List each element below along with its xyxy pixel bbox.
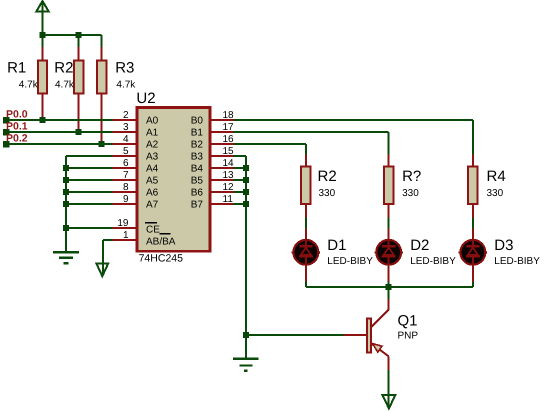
svg-text:CE: CE xyxy=(146,224,160,235)
svg-text:R3: R3 xyxy=(115,60,134,77)
svg-text:P0.0: P0.0 xyxy=(6,109,28,121)
svg-text:5: 5 xyxy=(123,146,129,157)
svg-text:P0.2: P0.2 xyxy=(6,133,28,145)
svg-text:13: 13 xyxy=(223,170,235,181)
svg-text:LED-BIBY: LED-BIBY xyxy=(494,256,540,267)
svg-text:R?: R? xyxy=(402,168,421,185)
svg-text:1: 1 xyxy=(123,230,129,241)
svg-text:330: 330 xyxy=(319,188,336,199)
svg-text:LED-BIBY: LED-BIBY xyxy=(410,256,456,267)
svg-text:D2: D2 xyxy=(410,237,429,254)
svg-text:330: 330 xyxy=(487,188,504,199)
svg-text:P0.1: P0.1 xyxy=(6,121,28,133)
svg-text:D3: D3 xyxy=(494,237,513,254)
svg-text:B4: B4 xyxy=(191,164,204,175)
svg-text:4: 4 xyxy=(123,134,129,145)
svg-text:U2: U2 xyxy=(136,90,155,107)
svg-text:D1: D1 xyxy=(327,237,346,254)
svg-text:A1: A1 xyxy=(146,128,159,139)
svg-text:B2: B2 xyxy=(191,140,204,151)
svg-text:A0: A0 xyxy=(146,116,159,127)
svg-text:6: 6 xyxy=(123,158,129,169)
svg-text:B7: B7 xyxy=(191,200,204,211)
svg-text:11: 11 xyxy=(223,194,234,205)
svg-text:17: 17 xyxy=(223,122,235,133)
svg-text:A2: A2 xyxy=(146,140,159,151)
svg-text:R2: R2 xyxy=(318,168,337,185)
svg-text:16: 16 xyxy=(223,134,235,145)
svg-text:12: 12 xyxy=(223,182,235,193)
svg-text:330: 330 xyxy=(402,188,419,199)
svg-text:3: 3 xyxy=(123,122,129,133)
svg-text:A4: A4 xyxy=(146,164,159,175)
svg-text:B1: B1 xyxy=(191,128,204,139)
svg-text:AB/BA: AB/BA xyxy=(146,236,176,247)
svg-text:A6: A6 xyxy=(146,188,159,199)
svg-text:2: 2 xyxy=(123,110,129,121)
svg-text:18: 18 xyxy=(223,110,235,121)
svg-text:74HC245: 74HC245 xyxy=(139,253,184,265)
svg-text:PNP: PNP xyxy=(398,331,419,342)
svg-text:B5: B5 xyxy=(191,176,204,187)
svg-text:LED-BIBY: LED-BIBY xyxy=(327,256,373,267)
svg-text:4.7k: 4.7k xyxy=(116,80,136,91)
svg-text:14: 14 xyxy=(223,158,235,169)
svg-text:B6: B6 xyxy=(191,188,204,199)
svg-text:9: 9 xyxy=(123,194,129,205)
svg-text:A7: A7 xyxy=(146,200,159,211)
svg-text:8: 8 xyxy=(123,182,129,193)
svg-text:R4: R4 xyxy=(487,168,506,185)
svg-text:15: 15 xyxy=(223,146,235,157)
svg-text:A5: A5 xyxy=(146,176,159,187)
svg-text:B0: B0 xyxy=(191,116,204,127)
svg-text:19: 19 xyxy=(117,218,129,229)
svg-text:R2: R2 xyxy=(54,60,73,77)
svg-text:R1: R1 xyxy=(7,60,26,77)
svg-text:A3: A3 xyxy=(146,152,159,163)
svg-text:Q1: Q1 xyxy=(398,312,418,329)
svg-text:7: 7 xyxy=(123,170,129,181)
svg-text:4.7k: 4.7k xyxy=(55,80,75,91)
svg-text:B3: B3 xyxy=(191,152,204,163)
svg-text:4.7k: 4.7k xyxy=(19,80,39,91)
